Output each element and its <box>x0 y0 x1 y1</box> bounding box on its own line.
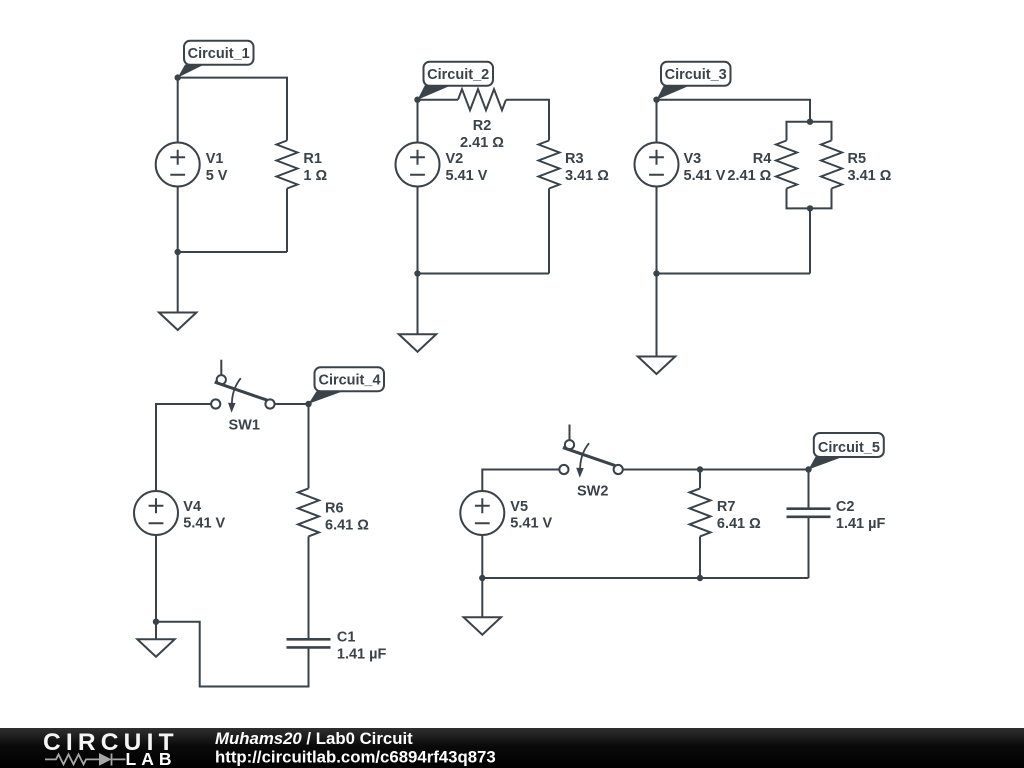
resistor R5 <box>821 141 842 189</box>
node circuit 4 right of switch <box>305 401 311 407</box>
capacitor C2 <box>787 509 831 517</box>
svg-text:R4: R4 <box>753 151 772 167</box>
switch SW1 arrow <box>232 378 241 406</box>
switch SW1 left terminal <box>211 399 220 408</box>
svg-text:Circuit_1: Circuit_1 <box>188 46 250 62</box>
svg-text:3.41 Ω: 3.41 Ω <box>848 168 892 184</box>
svg-text:LAB: LAB <box>126 749 177 768</box>
label bubble Circuit_1 <box>178 65 204 78</box>
svg-text:5.41 V: 5.41 V <box>183 516 225 532</box>
capacitor C1 <box>287 639 331 647</box>
wire V5 to switch left <box>482 470 559 492</box>
switch SW1 lever <box>215 382 267 400</box>
switch SW2 arrow <box>580 443 589 471</box>
CircuitLab logo schematic squiggle <box>45 754 126 766</box>
voltage source V2 <box>396 143 440 187</box>
svg-text:V4: V4 <box>183 499 201 515</box>
voltage source V5 <box>460 491 504 535</box>
svg-text:V5: V5 <box>510 499 528 515</box>
resistor R2 <box>458 89 506 110</box>
node bottom of parallel pair <box>807 205 813 211</box>
node A1 bottom <box>175 249 181 255</box>
wire node to V2 top <box>417 100 419 143</box>
wire bottom rail circuit 1 <box>178 251 287 253</box>
wire top rail circuit 3 <box>657 100 811 122</box>
wire node to R2 <box>418 99 459 101</box>
voltage source V4 <box>134 491 178 535</box>
svg-text:5.41 V: 5.41 V <box>446 168 488 184</box>
node circuit 5 bottom left <box>479 575 485 581</box>
resistor R6 <box>298 488 319 536</box>
switch SW2 lever <box>563 448 615 466</box>
svg-text:V2: V2 <box>446 151 464 167</box>
wire node to V3 top <box>656 100 658 143</box>
svg-text:3.41 Ω: 3.41 Ω <box>565 168 609 184</box>
switch SW1 top pin stub <box>220 360 222 375</box>
ground circuit 1 <box>177 252 179 313</box>
wire node down to R6 <box>308 404 310 488</box>
svg-text:R3: R3 <box>565 151 584 167</box>
svg-text:6.41 Ω: 6.41 Ω <box>717 516 761 532</box>
ground circuit 5 <box>481 578 483 617</box>
svg-text:R1: R1 <box>303 151 322 167</box>
node A3 bottom <box>653 270 659 276</box>
label bubble Circuit_3 <box>657 85 692 100</box>
voltage source V3 <box>635 143 679 187</box>
wire R2 to top right corner and down <box>506 100 549 141</box>
wire bottom rail circuit 3 <box>657 273 811 275</box>
footer black bar <box>0 728 1024 768</box>
label bubble Circuit_2 <box>418 85 453 100</box>
svg-text:http://circuitlab.com/c6894rf4: http://circuitlab.com/c6894rf43q873 <box>215 748 496 767</box>
wire V4 bottom to node <box>155 535 157 622</box>
node A2 top <box>414 97 420 103</box>
switch SW2 right terminal <box>614 465 623 474</box>
switch SW1 right terminal <box>265 399 274 408</box>
node top of parallel pair <box>807 119 813 125</box>
svg-text:Muhams20 / Lab0 Circuit: Muhams20 / Lab0 Circuit <box>215 729 413 748</box>
wire V5 bottom to node <box>481 535 483 578</box>
ground circuit 4 <box>155 622 157 640</box>
CircuitLab logo diode triangle <box>99 753 112 766</box>
node A2 bottom <box>414 270 420 276</box>
svg-text:6.41 Ω: 6.41 Ω <box>325 518 369 534</box>
svg-text:C1: C1 <box>337 630 356 646</box>
svg-text:5.41 V: 5.41 V <box>510 516 552 532</box>
switch SW2 left terminal <box>559 465 568 474</box>
wire parallel split top <box>787 122 832 141</box>
svg-text:SW2: SW2 <box>577 484 608 500</box>
svg-text:R5: R5 <box>848 151 867 167</box>
label bubble Circuit_5 <box>809 457 844 470</box>
ground circuit 2 <box>417 274 419 335</box>
svg-text:1.41 µF: 1.41 µF <box>337 647 387 663</box>
svg-text:R7: R7 <box>717 499 736 515</box>
node C2 top <box>805 466 811 472</box>
wire join to bottom rail <box>809 208 811 273</box>
svg-text:2.41 Ω: 2.41 Ω <box>727 168 771 184</box>
wire top rail circuit 1 <box>178 78 287 141</box>
ground circuit 3 <box>656 274 658 357</box>
wire R7 bottom lead <box>699 536 701 578</box>
wire R6 to C1 <box>308 536 310 639</box>
wire switch right to node <box>275 403 309 405</box>
wire R3 bottom lead <box>548 189 550 274</box>
wire switch right to R7 node to C2 node <box>623 469 809 471</box>
resistor R3 <box>539 141 560 189</box>
switch SW2 top pin stub <box>569 425 571 441</box>
label bubble Circuit_4 <box>309 391 344 404</box>
wire C1 bottom loop back to V4 <box>156 622 309 687</box>
node R7 top <box>697 466 703 472</box>
voltage source V1 <box>156 143 200 187</box>
svg-text:V3: V3 <box>684 151 702 167</box>
svg-text:V1: V1 <box>206 151 224 167</box>
svg-text:R6: R6 <box>325 501 344 517</box>
node R7 bottom <box>697 575 703 581</box>
wire bottom rail circuit 5 <box>482 577 808 579</box>
wire left from node to V1 top <box>177 78 179 143</box>
wire V2 bottom to bottom node <box>417 187 419 274</box>
svg-text:C2: C2 <box>836 499 855 515</box>
svg-text:Circuit_3: Circuit_3 <box>665 67 727 83</box>
node A1 top <box>175 74 181 80</box>
svg-text:5.41 V: 5.41 V <box>684 168 726 184</box>
wire parallel join bottom <box>787 189 832 209</box>
switch SW1 top contact circle <box>217 375 226 384</box>
wire bottom rail circuit 2 <box>418 273 550 275</box>
svg-text:Circuit_4: Circuit_4 <box>318 373 380 389</box>
node A3 top <box>653 97 659 103</box>
wire switch left to V4 <box>156 404 211 491</box>
svg-text:1.41 µF: 1.41 µF <box>836 516 886 532</box>
wire V3 bottom to bottom node <box>656 187 658 274</box>
wire C2 top lead <box>808 470 810 509</box>
switch SW2 top contact circle <box>565 440 574 449</box>
svg-text:SW1: SW1 <box>229 418 260 434</box>
svg-text:2.41 Ω: 2.41 Ω <box>460 135 504 151</box>
svg-text:Circuit_2: Circuit_2 <box>427 67 489 83</box>
wire R1 bottom lead <box>286 189 288 253</box>
wire C2 bottom lead <box>808 517 810 578</box>
svg-text:1 Ω: 1 Ω <box>303 168 327 184</box>
node circuit 4 bottom left <box>153 619 159 625</box>
resistor R4 <box>776 141 797 189</box>
wire V1 bottom to bottom node <box>177 187 179 253</box>
resistor R1 <box>277 141 298 189</box>
svg-text:Circuit_5: Circuit_5 <box>818 440 880 456</box>
svg-text:R2: R2 <box>473 118 492 134</box>
wire R7 top lead <box>699 470 701 489</box>
resistor R7 <box>690 488 711 536</box>
svg-text:5 V: 5 V <box>206 168 228 184</box>
